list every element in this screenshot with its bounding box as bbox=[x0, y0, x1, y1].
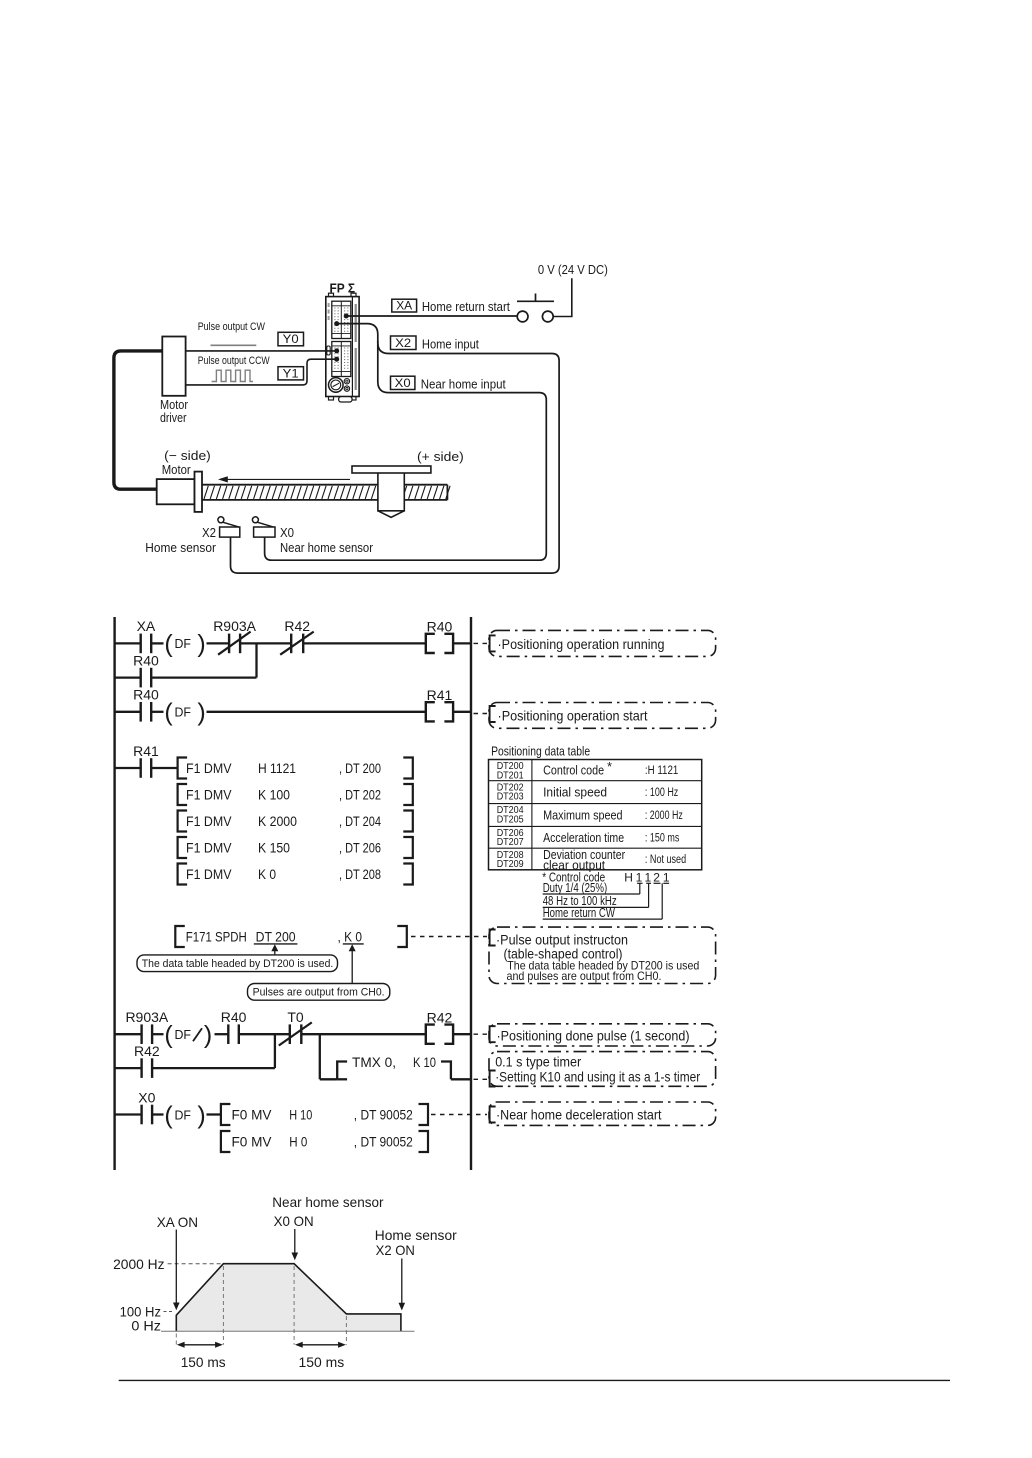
svg-text:Control code: Control code bbox=[543, 763, 604, 778]
wire Y1 motor driver to PLC bbox=[186, 359, 337, 385]
instruction F0 MV H0 DT90052 bbox=[221, 1131, 428, 1152]
svg-text:, DT 206: , DT 206 bbox=[339, 840, 381, 856]
svg-text:DT201: DT201 bbox=[497, 770, 524, 781]
svg-text:Near home sensor: Near home sensor bbox=[280, 540, 374, 555]
annotation bracket positioning operation start bbox=[490, 706, 496, 722]
svg-text:): ) bbox=[197, 1101, 205, 1129]
svg-text:F1 DMV: F1 DMV bbox=[186, 813, 232, 829]
branch junction rung4 bbox=[274, 1034, 276, 1068]
svg-text:0 V (24 V DC): 0 V (24 V DC) bbox=[538, 262, 608, 277]
rung 4 wire bbox=[115, 1033, 471, 1035]
svg-text:150 ms: 150 ms bbox=[181, 1354, 226, 1370]
svg-text:H 1121: H 1121 bbox=[258, 760, 296, 776]
svg-text:R42: R42 bbox=[427, 1009, 453, 1025]
svg-text:and pulses are output from CH0: and pulses are output from CH0. bbox=[507, 969, 662, 983]
leader timer bbox=[474, 1078, 488, 1080]
leader dashes F171 to annotation bbox=[411, 936, 487, 938]
arrow callout1 to DT200 bbox=[271, 944, 278, 955]
svg-text:Home sensor: Home sensor bbox=[145, 540, 216, 555]
coil R41 bbox=[426, 687, 453, 721]
arrow callout2 to K0 bbox=[349, 944, 356, 983]
svg-text:The data table headed by DT200: The data table headed by DT200 is used. bbox=[142, 958, 333, 970]
contact R903A bbox=[125, 1009, 168, 1044]
dashed vertical decel end bbox=[345, 1316, 347, 1345]
contact T0 (NC) bbox=[279, 1009, 312, 1046]
svg-text:R903A: R903A bbox=[125, 1009, 168, 1025]
label box Y0 bbox=[278, 332, 304, 346]
svg-text:0.1 s type timer: 0.1 s type timer bbox=[495, 1053, 581, 1069]
DF/ pulse element rung4 bbox=[164, 1021, 212, 1049]
svg-text:R42: R42 bbox=[134, 1043, 160, 1059]
junction to TMX block bbox=[319, 1034, 321, 1079]
rung 3 wire bbox=[115, 767, 178, 769]
CCW pulse train symbol bbox=[212, 370, 253, 381]
annotation box timer note bbox=[489, 1052, 716, 1087]
near home sensor switch X0 bbox=[252, 517, 275, 537]
instruction F1 DMV K150 bbox=[178, 837, 413, 858]
instruction F1 DMV K0 bbox=[178, 864, 413, 885]
coil R40 bbox=[426, 619, 453, 653]
svg-text:): ) bbox=[197, 630, 205, 658]
svg-text:(: ( bbox=[164, 1101, 173, 1129]
svg-text:, DT 90052: , DT 90052 bbox=[354, 1107, 413, 1123]
svg-text:XA: XA bbox=[137, 618, 156, 634]
PLC unit FP-Sigma bbox=[326, 293, 359, 402]
measure arrow decel 150ms bbox=[295, 1342, 346, 1348]
contact R42 (NC) bbox=[280, 618, 314, 655]
svg-text:: 150 ms: : 150 ms bbox=[645, 832, 680, 844]
svg-text:F1 DMV: F1 DMV bbox=[186, 787, 232, 803]
axis 0 Hz line bbox=[161, 1330, 415, 1332]
svg-text:Acceleration time: Acceleration time bbox=[543, 830, 624, 845]
callout pulses output from CH0 bbox=[248, 984, 390, 1001]
DF pulse element rung1 bbox=[164, 630, 205, 658]
svg-text:F171 SPDH: F171 SPDH bbox=[186, 929, 247, 945]
svg-text:Positioning data table: Positioning data table bbox=[491, 744, 590, 758]
contact R41 bbox=[133, 743, 159, 778]
svg-text:DT207: DT207 bbox=[497, 837, 524, 848]
svg-text:F1 DMV: F1 DMV bbox=[186, 760, 232, 776]
svg-text:DF: DF bbox=[175, 1028, 192, 1042]
svg-text:X2 ON: X2 ON bbox=[376, 1242, 415, 1258]
svg-text:·Positioning operation running: ·Positioning operation running bbox=[498, 636, 665, 652]
svg-text:DT209: DT209 bbox=[497, 859, 524, 870]
svg-text:: 2000 Hz: : 2000 Hz bbox=[645, 810, 683, 822]
svg-text:1: 1 bbox=[636, 871, 643, 885]
bottom horizontal rule bbox=[119, 1379, 950, 1381]
callout data table headed by DT200 bbox=[137, 955, 338, 972]
annotation bracket pulse output instruction bbox=[490, 930, 496, 946]
dashed 2000Hz level bbox=[168, 1263, 222, 1265]
svg-text:1: 1 bbox=[644, 871, 651, 885]
pin Y1 bbox=[334, 357, 339, 362]
svg-text:F1 DMV: F1 DMV bbox=[186, 866, 232, 882]
svg-text:Initial speed: Initial speed bbox=[543, 785, 607, 800]
svg-text:(+ side): (+ side) bbox=[417, 449, 464, 464]
svg-text:Y1: Y1 bbox=[283, 366, 299, 380]
leader rung2 bbox=[474, 713, 488, 715]
svg-text:: 100 Hz: : 100 Hz bbox=[645, 787, 679, 799]
timer instruction TMX 0 K10 bbox=[320, 1054, 471, 1079]
svg-text:·Near home deceleration start: ·Near home deceleration start bbox=[496, 1106, 662, 1122]
svg-text:X2: X2 bbox=[395, 336, 411, 350]
svg-text:Maximum speed: Maximum speed bbox=[543, 808, 623, 823]
svg-text:Home sensor: Home sensor bbox=[375, 1227, 457, 1243]
svg-text:T0: T0 bbox=[287, 1009, 304, 1025]
svg-text:): ) bbox=[197, 699, 205, 727]
svg-text:, DT 90052: , DT 90052 bbox=[354, 1134, 413, 1150]
rung 2 wire bbox=[115, 711, 471, 713]
svg-text:R40: R40 bbox=[133, 652, 159, 668]
arrow X2 ON bbox=[399, 1259, 406, 1311]
annotation box pulse output instruction bbox=[489, 927, 716, 983]
svg-text:R42: R42 bbox=[284, 618, 310, 634]
svg-text:2000 Hz: 2000 Hz bbox=[113, 1256, 164, 1272]
svg-text:Duty 1/4 (25%): Duty 1/4 (25%) bbox=[543, 881, 608, 895]
contact R42 bbox=[134, 1043, 160, 1078]
svg-text:DT 200: DT 200 bbox=[256, 929, 296, 945]
svg-text:Home input: Home input bbox=[422, 337, 479, 352]
travel direction arrow bbox=[218, 476, 350, 482]
arrow X0 ON bbox=[292, 1229, 299, 1260]
dashed vertical decel start bbox=[293, 1266, 295, 1345]
branch rung R40 wire bbox=[115, 676, 257, 678]
svg-text:DT205: DT205 bbox=[497, 814, 525, 825]
svg-text:K 2000: K 2000 bbox=[258, 813, 297, 829]
svg-text:, DT 204: , DT 204 bbox=[339, 813, 381, 829]
ladder right rail bbox=[470, 617, 472, 1170]
svg-text:K 10: K 10 bbox=[413, 1054, 436, 1070]
svg-text:K 0: K 0 bbox=[258, 866, 276, 882]
svg-text:K 150: K 150 bbox=[258, 840, 290, 856]
branch junction rung1 bbox=[255, 643, 257, 677]
wire from push button to 0V bbox=[553, 278, 572, 316]
label box X2 bbox=[391, 336, 417, 350]
instruction F1 DMV K100 bbox=[178, 784, 413, 805]
svg-text:R40: R40 bbox=[221, 1009, 247, 1025]
annotation box positioning operation running bbox=[489, 630, 716, 656]
instruction F171 SPDH pulse output bbox=[175, 926, 406, 947]
label box XA bbox=[392, 299, 417, 313]
svg-text:, K 0: , K 0 bbox=[338, 929, 363, 945]
instruction F0 MV H10 DT90052 bbox=[221, 1104, 428, 1125]
rung 1 wire bbox=[115, 642, 471, 644]
leader rung4 bbox=[474, 1033, 488, 1035]
svg-text:150 ms: 150 ms bbox=[299, 1354, 345, 1370]
svg-text:FP Σ: FP Σ bbox=[330, 280, 356, 295]
pin XA bbox=[344, 314, 349, 319]
pin X2 bbox=[334, 321, 339, 326]
svg-text:X0 ON: X0 ON bbox=[274, 1213, 314, 1229]
svg-text:XA: XA bbox=[396, 299, 412, 313]
dashed vertical accel end bbox=[222, 1266, 224, 1345]
leader rung5 bbox=[431, 1114, 487, 1116]
instruction F1 DMV H1121 bbox=[178, 758, 413, 779]
svg-text:H 10: H 10 bbox=[289, 1107, 312, 1123]
svg-text:, DT 202: , DT 202 bbox=[339, 787, 381, 803]
svg-text:DF: DF bbox=[175, 706, 192, 720]
svg-text:F0 MV: F0 MV bbox=[232, 1107, 273, 1123]
wire Y0 motor driver to PLC bbox=[186, 350, 337, 352]
svg-text:X0: X0 bbox=[138, 1089, 155, 1105]
branch rung R42 wire bbox=[115, 1067, 275, 1069]
home sensor switch X2 bbox=[218, 517, 240, 537]
control code legend bbox=[542, 871, 670, 921]
svg-text:(: ( bbox=[164, 699, 173, 727]
contact R40 bbox=[133, 652, 159, 687]
coil R42 bbox=[426, 1009, 453, 1043]
svg-text:DF: DF bbox=[175, 637, 192, 651]
wire X2 home input loop bbox=[231, 324, 560, 573]
dashed 100Hz stub bbox=[164, 1311, 175, 1313]
contact R903A (NC) bbox=[213, 618, 256, 655]
svg-text:driver: driver bbox=[160, 410, 187, 425]
svg-text:2: 2 bbox=[653, 871, 660, 885]
svg-text:H: H bbox=[624, 871, 633, 885]
svg-text:Near home input: Near home input bbox=[421, 377, 506, 392]
svg-text:): ) bbox=[204, 1021, 212, 1049]
svg-text:TMX 0,: TMX 0, bbox=[352, 1054, 396, 1070]
annotation bracket positioning operation running bbox=[490, 635, 496, 651]
svg-text:Motor: Motor bbox=[162, 462, 192, 477]
svg-text:XA ON: XA ON bbox=[157, 1214, 198, 1230]
svg-text:Pulse output CCW: Pulse output CCW bbox=[198, 355, 270, 367]
arrow XA ON bbox=[173, 1230, 180, 1311]
svg-text:K 100: K 100 bbox=[258, 787, 290, 803]
DF pulse element rung5 bbox=[164, 1101, 205, 1129]
instruction F1 DMV K2000 bbox=[178, 811, 413, 832]
ladder left rail bbox=[113, 617, 115, 1170]
ball screw shaft bbox=[202, 485, 450, 500]
contact XA bbox=[137, 618, 156, 653]
contact X0 bbox=[138, 1089, 155, 1124]
CW level symbol bbox=[211, 344, 257, 346]
wire XA to push button bbox=[346, 315, 517, 317]
motor M1 bbox=[157, 472, 202, 512]
svg-text:R40: R40 bbox=[427, 619, 453, 635]
svg-text:F1 DMV: F1 DMV bbox=[186, 840, 232, 856]
svg-text:R41: R41 bbox=[427, 687, 453, 703]
svg-text:X2: X2 bbox=[202, 525, 216, 540]
svg-text:DT203: DT203 bbox=[497, 792, 525, 803]
label box Y1 bbox=[278, 366, 304, 380]
pin Y0 bbox=[334, 348, 339, 353]
annotation box positioning done pulse bbox=[489, 1024, 716, 1046]
motor driver box U1 bbox=[162, 337, 185, 396]
svg-text:X0: X0 bbox=[280, 525, 294, 540]
annotation bracket positioning done pulse bbox=[490, 1026, 496, 1042]
speed profile trapezoid bbox=[176, 1264, 401, 1332]
svg-text:X0: X0 bbox=[395, 376, 411, 390]
svg-text:R40: R40 bbox=[133, 687, 159, 703]
svg-text:Home return CW: Home return CW bbox=[543, 906, 615, 920]
DF pulse element rung2 bbox=[164, 699, 205, 727]
dashed vertical accel start bbox=[175, 1334, 177, 1345]
svg-text:H 0: H 0 bbox=[289, 1134, 307, 1150]
svg-text:·Setting K10 and using it as a: ·Setting K10 and using it as a 1-s timer bbox=[495, 1069, 700, 1085]
thick cable motor driver to motor bbox=[114, 351, 162, 489]
svg-text:·Positioning operation start: ·Positioning operation start bbox=[498, 708, 648, 724]
contact R40 bbox=[133, 687, 159, 722]
svg-text:*: * bbox=[607, 759, 612, 774]
measure arrow accel 150ms bbox=[177, 1342, 223, 1348]
svg-text:0 Hz: 0 Hz bbox=[131, 1318, 161, 1334]
svg-text:DF: DF bbox=[175, 1108, 192, 1122]
svg-text:Near home sensor: Near home sensor bbox=[272, 1194, 384, 1210]
svg-text:(: ( bbox=[164, 630, 173, 658]
carriage on ball screw bbox=[352, 466, 431, 517]
svg-text:(: ( bbox=[164, 1021, 173, 1049]
annotation bracket near home deceleration start bbox=[490, 1107, 496, 1123]
positioning data table bbox=[489, 759, 702, 872]
leader rung1 bbox=[474, 642, 488, 644]
svg-text:·Positioning done pulse (1 sec: ·Positioning done pulse (1 second) bbox=[497, 1028, 690, 1044]
svg-text:, DT 200: , DT 200 bbox=[339, 760, 381, 776]
svg-text:F0 MV: F0 MV bbox=[232, 1134, 273, 1150]
annotation box near home deceleration start bbox=[489, 1102, 716, 1125]
svg-text:R41: R41 bbox=[133, 743, 159, 759]
annotation box positioning operation start bbox=[489, 703, 716, 729]
svg-text:R903A: R903A bbox=[213, 618, 256, 634]
label box X0 bbox=[391, 376, 415, 390]
svg-text:Pulse output CW: Pulse output CW bbox=[198, 321, 266, 333]
annotation bracket timer note bbox=[490, 1071, 496, 1087]
svg-text:1: 1 bbox=[663, 871, 670, 885]
push button switch (home return start) bbox=[517, 294, 554, 322]
svg-text:, DT 208: , DT 208 bbox=[339, 866, 381, 882]
svg-text:: Not used: : Not used bbox=[645, 854, 686, 866]
svg-text:Y0: Y0 bbox=[283, 332, 299, 346]
svg-text:Pulses are output from CH0.: Pulses are output from CH0. bbox=[253, 986, 385, 998]
svg-text:Home return start: Home return start bbox=[422, 299, 510, 314]
wire X0 near home input loop bbox=[265, 341, 547, 560]
svg-text::H 1121: :H 1121 bbox=[645, 765, 678, 777]
contact R40 bbox=[221, 1009, 247, 1044]
rung 5 wire bbox=[115, 1113, 221, 1115]
